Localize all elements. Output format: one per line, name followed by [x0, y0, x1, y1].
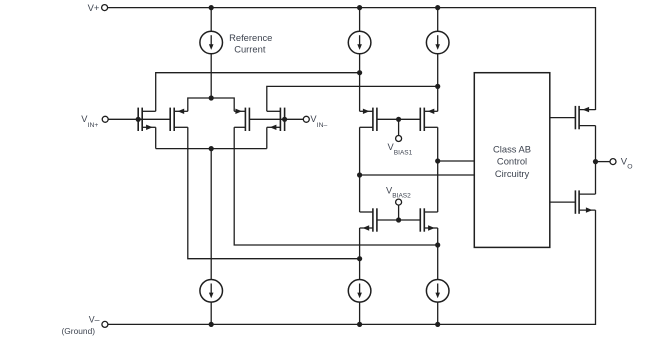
wire current source I5 to V- rail [359, 302, 361, 324]
wire Q4 drain to node B [267, 86, 438, 111]
node: output V_O [593, 159, 598, 164]
label class AB line 1 [493, 143, 531, 154]
transistor Q6 (PMOS cascode, right) [420, 108, 437, 131]
wire Q1 drain to node A [156, 73, 360, 112]
wire V+ rail to current source I3 [437, 8, 439, 32]
wire Q3 drain to right cascode column [234, 127, 438, 245]
label Reference [229, 32, 272, 43]
terminal V+ [102, 5, 108, 11]
label V_O [621, 156, 633, 170]
wire output PMOS drain to output node [595, 126, 597, 195]
wire I2 to left cascode column / node A [359, 54, 361, 112]
wire Q4 source to NMOS tail [266, 127, 268, 148]
wire V_IN+ input to gates of Q1/Q2 [108, 118, 170, 120]
current source I1 (reference current) [200, 31, 223, 54]
label V- [89, 314, 100, 324]
label V_BIAS2 [386, 186, 411, 200]
svg-text:(Ground): (Ground) [62, 326, 96, 336]
transistor Q8 (NMOS cascode, right) [420, 208, 437, 231]
transistor Q4 (NMOS, V_IN- input) [267, 108, 285, 131]
svg-text:V–: V– [89, 314, 100, 324]
label Current [234, 43, 266, 54]
wire NMOS tail down to current source I4 [210, 149, 212, 280]
wire right column: NMOS cascode source down to current source I6 [437, 228, 439, 280]
node: V_IN- at Q4 gate [282, 117, 287, 122]
transistor Q1 (NMOS, V_IN+ input) [138, 108, 156, 131]
node: V_IN+ at Q1 gate [136, 117, 141, 122]
transistor Q7 (NMOS cascode, left) [360, 208, 377, 231]
transistor Q9 (output PMOS) [575, 106, 595, 129]
current source I3 (top of right cascode column) [426, 31, 449, 54]
wire top V+ rail [108, 8, 596, 110]
wire V_BIAS1 common gate line [377, 118, 420, 120]
node: Q3 drain joins right column [435, 242, 440, 247]
terminal V_O [610, 159, 616, 165]
transistor Q10 (output NMOS) [575, 190, 595, 213]
svg-text:Class AB: Class AB [493, 143, 531, 154]
terminal V_IN- [303, 116, 309, 122]
wire class AB box to output NMOS gate [550, 201, 576, 203]
wire Q1 source to NMOS tail [155, 127, 157, 148]
wire I3 to right cascode column / node B [437, 54, 439, 112]
wire right column: PMOS cascode drain down to NMOS cascode drain [437, 127, 439, 212]
wire V_BIAS2 terminal stub [398, 205, 400, 220]
transistor Q5 (PMOS cascode, left) [360, 108, 377, 131]
current source I5 (bottom of left cascode column) [348, 280, 371, 303]
wire NMOS input pair common-source tail [156, 148, 267, 150]
wire bottom V- rail [108, 210, 596, 324]
terminal V- [102, 321, 108, 327]
label V_IN+ [81, 114, 98, 129]
node B: Q4 drain joins right column [435, 84, 440, 89]
wire output node to V_O terminal [596, 161, 611, 163]
svg-text:Current: Current [234, 43, 266, 54]
node: V_BIAS1 gate line [396, 117, 401, 122]
svg-text:V+: V+ [88, 2, 100, 13]
wire current source I4 to V- rail [210, 302, 212, 324]
label V_BIAS1 [388, 142, 413, 157]
node: V- rail / I4 [209, 322, 214, 327]
node: V+ rail / reference current [209, 5, 214, 10]
label V_IN- [310, 114, 327, 129]
wire reference current source to PMOS pair tail [210, 54, 212, 98]
wire PMOS input pair common-source tail [188, 98, 234, 111]
label class AB line 2 [497, 156, 527, 167]
wire left column to class AB box input [360, 174, 475, 176]
wire right column to class AB box input [438, 160, 475, 162]
wire V_BIAS2 common gate line [377, 219, 420, 221]
node: PMOS tail / reference current [209, 95, 214, 100]
transistor Q2 (PMOS, V_IN+ input) [170, 108, 188, 131]
node A: Q1 drain joins left column [357, 70, 362, 75]
wire V_IN- input to gates of Q3/Q4 [249, 118, 303, 120]
node: V- rail / I5 [357, 322, 362, 327]
wire current source I6 to V- rail [437, 302, 439, 324]
node: left column / class AB input [357, 172, 362, 177]
node: V- rail / I6 [435, 322, 440, 327]
terminal V_BIAS1 [396, 136, 402, 142]
terminal V_IN+ [102, 116, 108, 122]
current source I6 (bottom of right cascode column) [426, 280, 449, 303]
current source I4 (NMOS input pair tail) [200, 280, 223, 303]
transistor Q3 (PMOS, V_IN- input) [234, 108, 249, 131]
wire left column: NMOS cascode source down to current source I5 [359, 228, 361, 280]
node: V_BIAS2 gate line [396, 217, 401, 222]
label V+ [88, 2, 100, 13]
node: right column / class AB input [435, 158, 440, 163]
node: NMOS tail / I4 [209, 146, 214, 151]
wire V_BIAS1 terminal stub [398, 119, 400, 135]
svg-text:Control: Control [497, 156, 527, 167]
svg-text:Reference: Reference [229, 32, 272, 43]
wire V+ rail to current source I2 [359, 8, 361, 32]
wire V+ rail to reference current source [210, 8, 212, 32]
wire Q2 drain to left cascode column [188, 127, 360, 258]
label (Ground) [62, 326, 96, 336]
wire class AB box to output PMOS gate [550, 117, 576, 119]
class AB control circuitry block [474, 73, 550, 248]
wire left column: PMOS cascode drain down to NMOS cascode drain [359, 127, 361, 212]
node: Q2 drain joins left column [357, 256, 362, 261]
node: V+ rail / I2 [357, 5, 362, 10]
node: V+ rail / I3 [435, 5, 440, 10]
current source I2 (top of left cascode column) [348, 31, 371, 54]
svg-text:Circuitry: Circuitry [495, 168, 530, 179]
terminal V_BIAS2 [396, 199, 402, 205]
label class AB line 3 [495, 168, 530, 179]
